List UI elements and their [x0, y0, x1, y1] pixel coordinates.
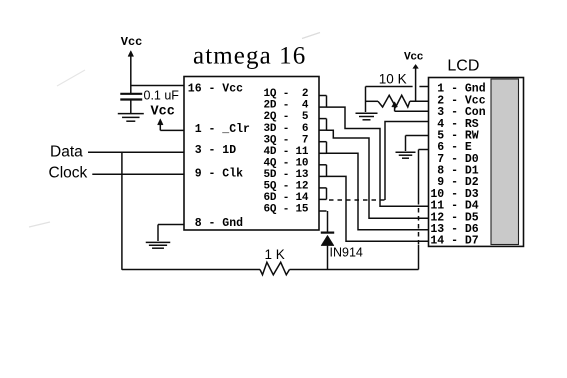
svg-text:6Q - 15: 6Q - 15	[264, 203, 309, 215]
svg-text:1 - _Clr: 1 - _Clr	[188, 123, 250, 136]
svg-text:2D - 4: 2D - 4	[264, 100, 309, 112]
svg-text:IN914: IN914	[330, 246, 363, 260]
svg-text:3 - 1D: 3 - 1D	[188, 144, 236, 157]
svg-text:5Q - 12: 5Q - 12	[264, 180, 309, 192]
svg-text:4Q - 10: 4Q - 10	[264, 157, 309, 169]
svg-text:1Q - 2: 1Q - 2	[264, 88, 309, 100]
svg-text:4D - 11: 4D - 11	[264, 146, 309, 158]
svg-text:Clock: Clock	[49, 165, 88, 182]
svg-text:10 K: 10 K	[379, 72, 407, 87]
svg-text:Vcc: Vcc	[404, 52, 424, 64]
svg-text:2Q - 5: 2Q - 5	[264, 111, 309, 123]
svg-text:8 - Gnd: 8 - Gnd	[188, 217, 243, 230]
svg-text:5D - 13: 5D - 13	[264, 169, 309, 181]
svg-text:3Q - 7: 3Q - 7	[264, 134, 309, 146]
svg-text:atmega 16: atmega 16	[193, 43, 306, 70]
svg-text:LCD: LCD	[447, 58, 479, 75]
svg-text:3D - 6: 3D - 6	[264, 123, 309, 135]
svg-text:1 K: 1 K	[265, 247, 285, 262]
svg-text:0.1 uF: 0.1 uF	[144, 88, 180, 102]
svg-text:Vcc: Vcc	[121, 35, 143, 49]
svg-text:6D - 14: 6D - 14	[264, 192, 309, 204]
svg-text:14 - D7: 14 - D7	[430, 235, 478, 248]
svg-text:Data: Data	[50, 144, 83, 161]
svg-text:Vcc: Vcc	[151, 105, 175, 120]
svg-text:16 - Vcc: 16 - Vcc	[188, 83, 243, 96]
svg-text:9 - Clk: 9 - Clk	[188, 168, 243, 181]
